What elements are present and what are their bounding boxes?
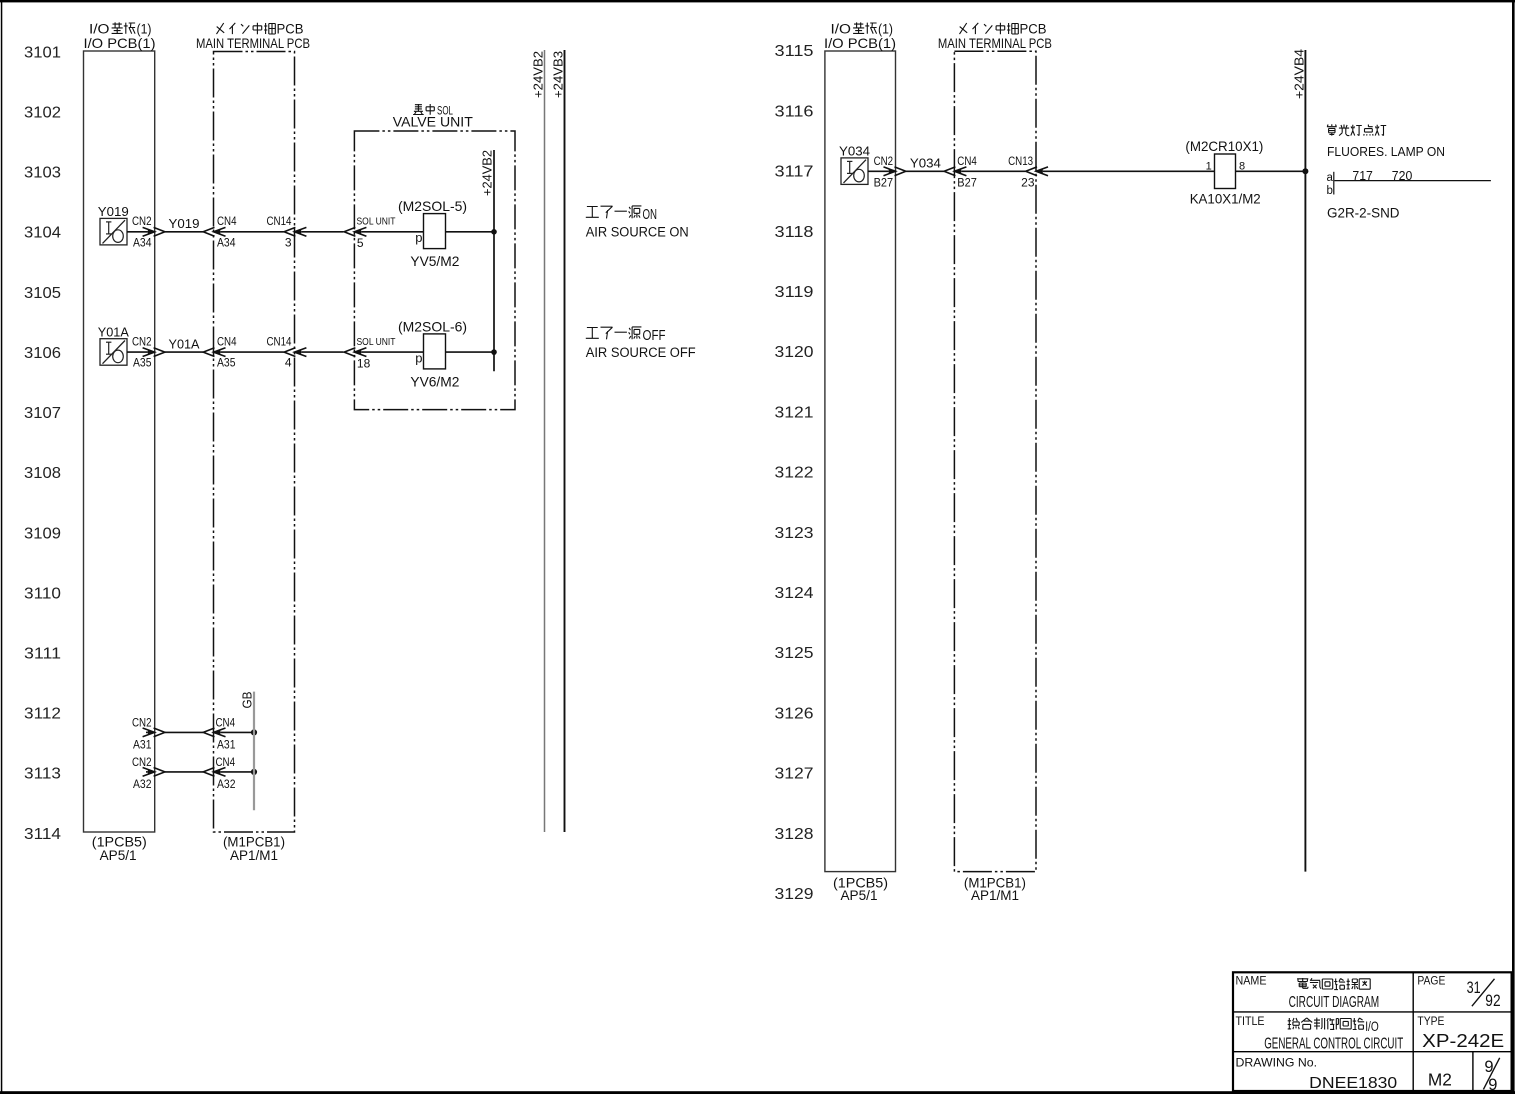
svg-text:CN13: CN13 (1008, 154, 1033, 168)
svg-text:AP1/M1: AP1/M1 (971, 888, 1019, 903)
title japanese (1288, 1018, 1379, 1034)
wire (961, 170, 1025, 172)
right row numbers 3115-3129 (775, 43, 814, 903)
svg-text:CN14: CN14 (267, 214, 292, 228)
svg-text:M2: M2 (1428, 1069, 1452, 1089)
label G2R-2-SND (1327, 206, 1400, 221)
junction on GB (251, 769, 257, 775)
svg-text:a: a (1327, 172, 1334, 184)
svg-text:OFF: OFF (643, 327, 666, 344)
connector CN2/B27 (884, 167, 906, 176)
wire (301, 351, 343, 353)
sheet 9 top (1484, 1058, 1493, 1076)
svg-text:31: 31 (1467, 978, 1481, 997)
connector CN14/4 (284, 348, 306, 357)
CIRCUIT DIAGRAM (1289, 994, 1380, 1011)
svg-text:ON: ON (643, 206, 658, 223)
wire (361, 351, 423, 353)
svg-text:A34: A34 (133, 235, 152, 249)
svg-text:(M2CR10X1): (M2CR10X1) (1185, 138, 1263, 154)
svg-text:+24VB2: +24VB2 (480, 150, 495, 196)
title block (1233, 972, 1512, 1091)
I/O PCB(1) box (left) (84, 51, 155, 832)
connector CN2/A35 (143, 348, 165, 357)
svg-text:A32: A32 (133, 777, 152, 791)
contact line (1335, 180, 1491, 182)
svg-text:(M2SOL-6): (M2SOL-6) (398, 318, 467, 334)
svg-text:3122: 3122 (775, 465, 814, 482)
footer (right io box) (833, 876, 888, 904)
connector CN4/A35 (203, 348, 225, 357)
svg-text:(M2SOL-5): (M2SOL-5) (398, 198, 467, 214)
svg-text:B27: B27 (957, 176, 977, 190)
wire (127, 351, 148, 353)
svg-text:3113: 3113 (24, 766, 61, 783)
annotation air source off (586, 327, 666, 344)
svg-text:Y034: Y034 (910, 156, 941, 171)
wire (127, 231, 148, 233)
relay name (M2CR10X1) (1185, 138, 1263, 154)
MAIN TERMINAL PCB box (right, dash-dot) (954, 51, 1036, 871)
connector CN4/A31 (203, 728, 225, 737)
svg-text:3111: 3111 (24, 646, 61, 663)
pin 8 (1239, 161, 1245, 173)
svg-text:3125: 3125 (775, 645, 814, 662)
MAIN TERMINAL PCB header (right) (960, 22, 1047, 37)
svg-text:AIR SOURCE OFF: AIR SOURCE OFF (586, 345, 696, 360)
wire to GB (220, 771, 254, 773)
VALVE UNIT box (dash-dot) (354, 131, 515, 410)
svg-text:+24VB4: +24VB4 (1291, 49, 1306, 99)
label Y034 (839, 143, 870, 158)
svg-text:3105: 3105 (24, 285, 61, 302)
svg-text:CN4: CN4 (216, 755, 236, 769)
wire to GB (220, 731, 254, 733)
connector CN14/3 (284, 227, 306, 236)
sheet slash (1483, 1058, 1499, 1090)
label Y019 (98, 204, 129, 219)
label YV5/M2 (410, 253, 459, 269)
svg-text:3129: 3129 (775, 886, 814, 903)
svg-text:TITLE: TITLE (1236, 1016, 1265, 1028)
page 92 (1485, 991, 1500, 1010)
VALVE UNIT header label (413, 104, 453, 118)
svg-text:+24VB3: +24VB3 (551, 51, 566, 98)
svg-text:I/O: I/O (1365, 1018, 1379, 1034)
MAIN TERMINAL PCB footer label (223, 835, 285, 864)
svg-text:1: 1 (1206, 161, 1212, 173)
svg-text:CN2: CN2 (132, 755, 152, 769)
junction on GB (251, 729, 257, 735)
pin 1 (1206, 161, 1212, 173)
MAIN TERMINAL PCB box (left, dash-dot) (214, 52, 295, 833)
svg-text:CN14: CN14 (267, 335, 292, 349)
svg-text:GENERAL CONTROL CIRCUIT: GENERAL CONTROL CIRCUIT (1264, 1036, 1403, 1053)
wire (446, 231, 495, 233)
svg-text:CN4: CN4 (217, 335, 237, 349)
bus +24VB3 (564, 50, 566, 832)
connector CN4/A34 (203, 227, 225, 236)
net label Y034 (910, 156, 941, 171)
svg-text:DRAWING No.: DRAWING No. (1236, 1055, 1318, 1069)
TYPE label (1417, 1016, 1444, 1028)
terminal 720 (1392, 169, 1413, 183)
name japanese (1297, 978, 1370, 990)
svg-text:DNEE1830: DNEE1830 (1309, 1075, 1397, 1092)
svg-text:18: 18 (357, 357, 371, 371)
svg-text:VALVE UNIT: VALVE UNIT (393, 115, 473, 130)
label Y01A (98, 325, 129, 340)
svg-text:I/O PCB(1): I/O PCB(1) (824, 35, 896, 51)
XP-242E (1422, 1031, 1504, 1051)
svg-text:YV5/M2: YV5/M2 (410, 253, 459, 269)
connector SOL UNIT/5 (344, 227, 366, 236)
svg-text:+24VB2: +24VB2 (531, 51, 546, 98)
TITLE label (1236, 1016, 1265, 1028)
svg-text:3117: 3117 (775, 164, 814, 181)
wire (361, 231, 423, 233)
svg-text:717: 717 (1352, 169, 1373, 183)
svg-text:B27: B27 (874, 176, 894, 190)
svg-text:Y01A: Y01A (98, 325, 129, 340)
svg-text:5: 5 (357, 236, 364, 250)
I/O output symbol Y01A (100, 339, 127, 366)
wire (165, 771, 203, 773)
svg-text:NAME: NAME (1236, 975, 1267, 987)
solenoid coil YV6/M2 (424, 334, 446, 369)
svg-text:CN2: CN2 (132, 335, 152, 349)
svg-text:p: p (415, 230, 422, 245)
svg-text:3109: 3109 (24, 525, 61, 542)
svg-text:3102: 3102 (24, 104, 61, 121)
I/O PCB(1) header (right) (831, 22, 894, 37)
svg-text:3108: 3108 (24, 465, 61, 482)
svg-text:KA10X1/M2: KA10X1/M2 (1190, 191, 1261, 207)
connector CN4/A32 (203, 768, 225, 777)
connector SOL UNIT/18 (344, 348, 366, 357)
svg-text:3106: 3106 (24, 345, 61, 362)
svg-text:3116: 3116 (775, 103, 814, 120)
svg-text:CN4: CN4 (216, 715, 236, 729)
PAGE label (1417, 975, 1445, 987)
junction (491, 229, 497, 235)
relay coil KA10X1/M2 (1215, 154, 1236, 189)
svg-text:PAGE: PAGE (1417, 975, 1445, 987)
left row numbers 3101-3114 (24, 44, 61, 843)
svg-text:3114: 3114 (24, 826, 61, 843)
wire (165, 231, 203, 233)
svg-text:MAIN TERMINAL PCB: MAIN TERMINAL PCB (196, 35, 310, 51)
contact b (1327, 185, 1333, 197)
pin label p (415, 230, 422, 245)
label KA10X1/M2 (1190, 191, 1261, 207)
connector CN2/A32 (143, 768, 165, 777)
svg-text:A35: A35 (133, 356, 152, 370)
GB line (253, 692, 255, 811)
svg-text:3104: 3104 (24, 225, 61, 242)
svg-text:3127: 3127 (775, 766, 814, 783)
svg-text:CN4: CN4 (957, 154, 977, 168)
DRAWING No. label (1236, 1055, 1318, 1069)
I/O PCB(1) footer label (92, 835, 147, 864)
wire (146, 771, 148, 773)
svg-text:XP-242E: XP-242E (1422, 1031, 1504, 1051)
I/O PCB(1) header label (89, 22, 152, 37)
svg-text:4: 4 (285, 356, 292, 370)
MAIN TERMINAL PCB header label (217, 22, 304, 37)
net label Y019 (169, 216, 200, 231)
+24VB2 feeder line inside valve unit (493, 150, 495, 371)
svg-text:3124: 3124 (775, 585, 814, 602)
connector CN2/A31 (143, 728, 165, 737)
wire (868, 170, 889, 172)
svg-text:FLUORES. LAMP ON: FLUORES. LAMP ON (1327, 145, 1445, 159)
svg-text:Y01A: Y01A (169, 336, 200, 351)
svg-text:CIRCUIT DIAGRAM: CIRCUIT DIAGRAM (1289, 994, 1380, 1011)
wire (1236, 170, 1306, 172)
I/O output symbol Y019 (100, 218, 127, 245)
svg-text:3123: 3123 (775, 525, 814, 542)
svg-text:G2R-2-SND: G2R-2-SND (1327, 206, 1400, 221)
M2 (1428, 1069, 1452, 1089)
svg-text:AP5/1: AP5/1 (841, 888, 878, 903)
svg-text:CN4: CN4 (217, 214, 237, 228)
solenoid name (M2SOL-5) (398, 198, 467, 214)
I/O PCB(1) box (right) (825, 51, 896, 872)
connector CN13/23 (1026, 167, 1048, 176)
svg-text:SOL UNIT: SOL UNIT (357, 336, 396, 348)
svg-text:A31: A31 (133, 737, 152, 751)
svg-text:9: 9 (1488, 1076, 1497, 1094)
svg-text:CN2: CN2 (132, 715, 152, 729)
svg-text:A35: A35 (217, 356, 236, 370)
DNEE1830 (1309, 1075, 1397, 1092)
terminal 717 (1352, 169, 1373, 183)
svg-text:3128: 3128 (775, 826, 814, 843)
connector CN4/B27 (944, 167, 966, 176)
svg-text:3126: 3126 (775, 705, 814, 722)
svg-text:3110: 3110 (24, 585, 61, 602)
net label Y01A (169, 336, 200, 351)
bus +24VB2 (544, 50, 546, 832)
svg-text:3101: 3101 (24, 44, 61, 61)
svg-text:Y019: Y019 (98, 204, 129, 219)
junction on +24VB4 (1302, 168, 1308, 174)
I/O output symbol Y034 (841, 158, 868, 185)
page 31 (1467, 978, 1481, 997)
svg-text:3103: 3103 (24, 165, 61, 182)
svg-text:3107: 3107 (24, 405, 61, 422)
svg-text:3118: 3118 (775, 224, 814, 241)
svg-text:p: p (415, 351, 422, 366)
svg-text:A31: A31 (217, 737, 236, 751)
bus +24VB4 (1304, 50, 1306, 872)
svg-text:SOL UNIT: SOL UNIT (357, 216, 396, 228)
NAME label (1236, 975, 1267, 987)
svg-text:Y019: Y019 (169, 216, 200, 231)
svg-text:3120: 3120 (775, 344, 814, 361)
svg-text:720: 720 (1392, 169, 1413, 183)
wire (906, 170, 944, 172)
svg-text:AP5/1: AP5/1 (100, 848, 137, 863)
svg-text:b: b (1327, 185, 1333, 197)
wire (220, 231, 283, 233)
svg-text:AIR SOURCE ON: AIR SOURCE ON (586, 225, 689, 240)
svg-text:GB: GB (241, 692, 255, 709)
footer (right terminal box) (964, 876, 1026, 904)
svg-text:23: 23 (1021, 176, 1035, 190)
svg-text:3121: 3121 (775, 404, 814, 421)
svg-text:CN2: CN2 (132, 214, 152, 228)
page slash (1472, 979, 1495, 1006)
pin label p (415, 351, 422, 366)
svg-text:3119: 3119 (775, 284, 814, 301)
annotation air source on (586, 206, 657, 223)
svg-text:Y034: Y034 (839, 143, 870, 158)
svg-text:I/O PCB(1): I/O PCB(1) (84, 35, 156, 51)
connector CN2/A34 (143, 227, 165, 236)
wire (446, 351, 495, 353)
wire to relay (1043, 170, 1215, 172)
svg-text:AP1/M1: AP1/M1 (230, 848, 278, 863)
contact a (1327, 172, 1334, 184)
junction (491, 349, 497, 355)
svg-text:92: 92 (1485, 991, 1500, 1010)
svg-text:3112: 3112 (24, 706, 61, 723)
svg-text:CN2: CN2 (874, 154, 894, 168)
contact tick (1333, 172, 1335, 195)
solenoid coil YV5/M2 (424, 214, 446, 249)
wire (146, 731, 148, 733)
label YV6/M2 (410, 374, 459, 390)
solenoid name (M2SOL-6) (398, 318, 467, 334)
annotation fluores lamp on (1327, 124, 1386, 135)
svg-text:MAIN TERMINAL PCB: MAIN TERMINAL PCB (938, 35, 1052, 51)
wire (301, 231, 343, 233)
svg-text:A34: A34 (217, 235, 236, 249)
GENERAL CONTROL CIRCUIT (1264, 1036, 1403, 1053)
svg-text:3115: 3115 (775, 43, 814, 60)
svg-text:TYPE: TYPE (1417, 1016, 1444, 1028)
sheet 9 bottom (1488, 1076, 1497, 1094)
svg-text:YV6/M2: YV6/M2 (410, 374, 459, 390)
wire (220, 351, 283, 353)
svg-text:3: 3 (285, 235, 292, 249)
wire (165, 731, 203, 733)
wire (165, 351, 203, 353)
svg-text:A32: A32 (217, 777, 236, 791)
